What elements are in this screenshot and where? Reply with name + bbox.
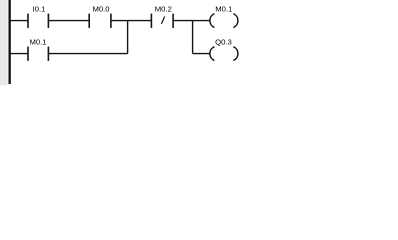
contact M0.1 (seal-in parallel)	[28, 37, 48, 61]
wire M0.2 to coil M0.1	[173, 20, 210, 22]
wire M0.1 contact up to main rung	[48, 53, 127, 55]
svg-text:M0.1: M0.1	[215, 4, 232, 13]
contact M0.2 (normally closed)	[151, 4, 173, 28]
wire branch to coil Q0.3	[193, 53, 211, 55]
gutter margin strip	[0, 0, 8, 86]
coil Q0.3	[210, 37, 238, 60]
wire M0.0 to M0.2	[111, 20, 151, 22]
junction branch down to M0.1 parallel row	[127, 21, 129, 54]
left power rail	[9, 0, 11, 84]
svg-text:M0.1: M0.1	[29, 37, 46, 46]
contact I0.1	[28, 4, 48, 28]
svg-text:M0.0: M0.0	[92, 4, 109, 13]
svg-text:Q0.3: Q0.3	[215, 37, 232, 46]
wire I0.1 to M0.0	[48, 20, 89, 22]
contact M0.0	[89, 4, 111, 28]
svg-text:I0.1: I0.1	[33, 4, 46, 13]
wire rail to contact M0.1	[11, 53, 29, 55]
coil M0.1	[210, 4, 238, 27]
svg-text:M0.2: M0.2	[155, 4, 172, 13]
wire rail to I0.1	[11, 20, 29, 22]
junction branch down to Q0.3 coil	[192, 21, 194, 54]
